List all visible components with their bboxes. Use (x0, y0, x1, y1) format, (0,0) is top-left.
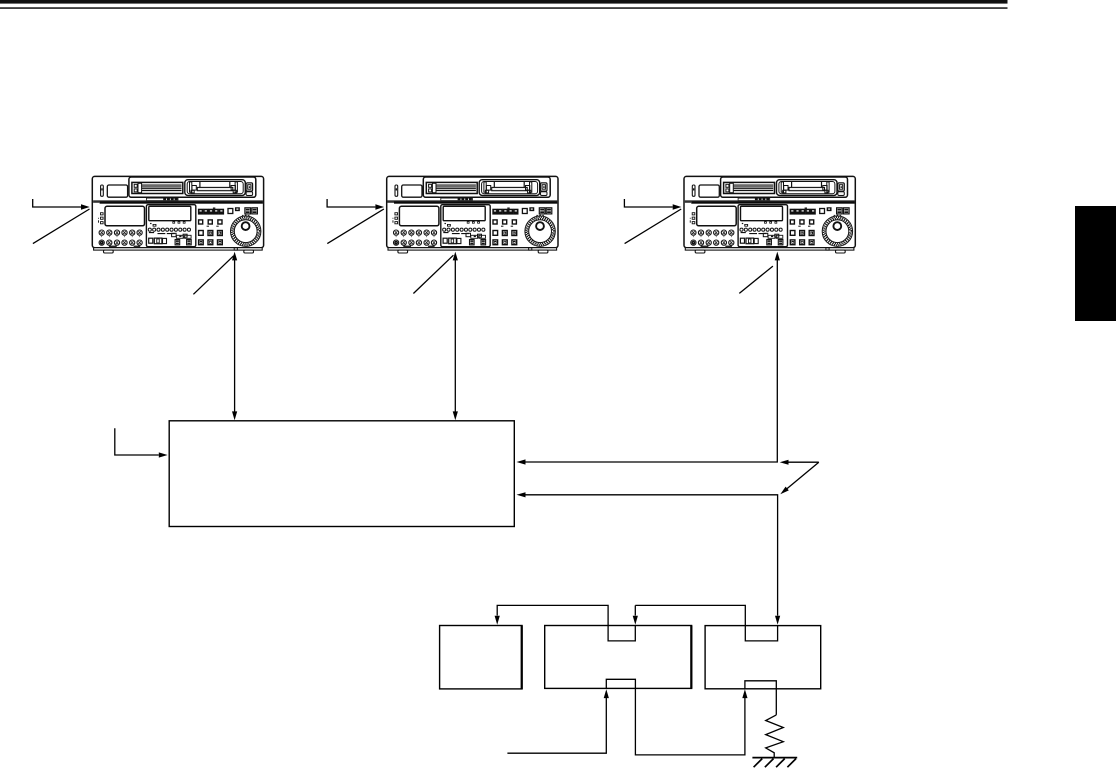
leader arrow to VTR 1 (33, 199, 90, 210)
header rule (0, 7, 1008, 9)
leader arrow to VTR 2 (327, 199, 384, 210)
wire controller to monitor box (517, 492, 781, 624)
leader line to VTR 3 (625, 209, 682, 244)
VTR unit 3 (recorder) (684, 176, 855, 253)
controller box (169, 421, 514, 527)
leader arrow to controller box (115, 428, 168, 457)
wire VTR2 to controller (double arrow) (453, 252, 458, 421)
box C (705, 626, 821, 689)
wire from mixer into box B (507, 689, 609, 753)
loop-through wire box B to box C (606, 679, 747, 755)
wire into box B and loop through box C (633, 605, 778, 641)
page tab (1075, 206, 1116, 321)
callout arrow lower (cable pair) (780, 462, 819, 494)
leader line to VTR 1 (33, 209, 90, 244)
VTR unit 1 (player 1) (92, 176, 263, 253)
wire into box A and loop through box B (495, 605, 636, 641)
ground (752, 758, 797, 768)
resistor (termination) (766, 715, 784, 758)
box A (440, 626, 522, 689)
leader line under VTR 2 (413, 255, 453, 293)
leader line to VTR 2 (327, 209, 384, 244)
VTR unit 2 (player 2) (387, 176, 558, 253)
wire VTR1 to controller (double arrow) (232, 252, 237, 421)
leader arrow to VTR 3 (624, 199, 681, 210)
leader line under VTR 3 (739, 266, 773, 293)
box B (545, 626, 692, 689)
loop-through wire box C to resistor (745, 681, 776, 715)
callout arrow upper (cable pair) (780, 460, 819, 465)
leader line under VTR 1 (193, 256, 233, 294)
wire VTR3 to controller (517, 252, 780, 465)
header bar (0, 0, 1008, 4)
